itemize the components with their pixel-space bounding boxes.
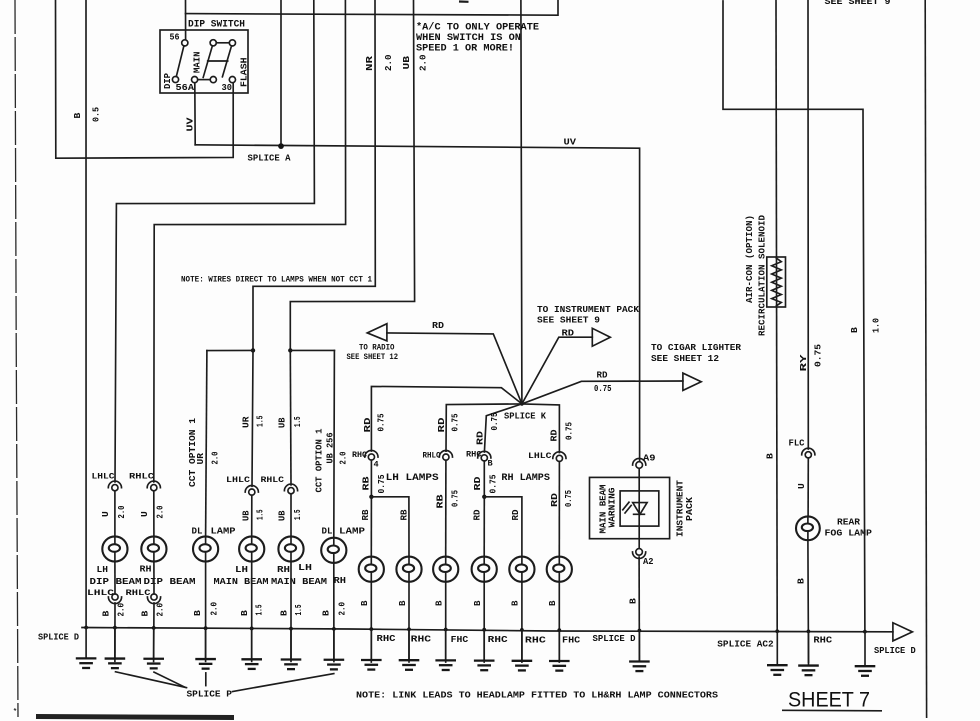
ground instrument pack bbox=[629, 661, 650, 671]
wire feed to dip switch terminal 56 bbox=[185, 0, 187, 40]
wire down to DL lamp 2 bbox=[333, 350, 336, 537]
svg-text:U: U bbox=[796, 483, 807, 489]
svg-text:RD: RD bbox=[472, 476, 483, 490]
svg-text:RHC: RHC bbox=[377, 633, 397, 644]
svg-text:RD: RD bbox=[562, 328, 575, 339]
connector LHLC (LH dip beam) bbox=[108, 481, 121, 491]
instrument pack box bbox=[590, 477, 670, 538]
svg-text:RHC: RHC bbox=[525, 635, 547, 646]
wire RD feed from top to SPLICE K bbox=[521, 0, 522, 404]
svg-text:2.0: 2.0 bbox=[116, 505, 127, 518]
svg-text:SPLICE K: SPLICE K bbox=[504, 411, 546, 422]
svg-text:U: U bbox=[139, 511, 150, 517]
lamp DL LH bbox=[193, 536, 218, 561]
ground RH tail 1 bbox=[474, 661, 495, 671]
node junction RB bbox=[369, 495, 373, 499]
svg-text:LH LAMPS: LH LAMPS bbox=[386, 473, 439, 484]
svg-text:UV: UV bbox=[185, 117, 196, 131]
svg-text:0.75: 0.75 bbox=[488, 474, 499, 493]
svg-text:CCT OPTION 1: CCT OPTION 1 bbox=[314, 428, 325, 493]
svg-text:B: B bbox=[101, 611, 112, 617]
arrow to radio bbox=[367, 324, 387, 341]
wire RD 0.75 to LHLC bbox=[522, 404, 560, 453]
svg-text:RB: RB bbox=[360, 509, 371, 520]
wire B 1.5 to bus and ground bbox=[251, 562, 253, 662]
wire RD to radio bbox=[387, 333, 522, 404]
svg-text:*A/C TO ONLY OPERATE: *A/C TO ONLY OPERATE bbox=[416, 22, 539, 34]
wire RB 0.75 bbox=[445, 460, 447, 556]
wire UV feed from top to splice A bbox=[280, 0, 282, 146]
svg-text:SHEET 7: SHEET 7 bbox=[788, 688, 870, 712]
wire UB 1.5 bbox=[251, 495, 253, 536]
svg-text:RHC: RHC bbox=[466, 451, 482, 460]
svg-text:RH: RH bbox=[140, 564, 152, 575]
svg-text:B: B bbox=[510, 600, 521, 606]
svg-text:2.0: 2.0 bbox=[210, 451, 221, 464]
wire B to bus and ground bbox=[558, 582, 560, 662]
svg-text:RD: RD bbox=[362, 417, 373, 432]
svg-text:SPLICE P: SPLICE P bbox=[187, 689, 233, 700]
svg-text:RD: RD bbox=[549, 429, 560, 441]
recirculation solenoid (air-con option) bbox=[767, 257, 786, 307]
svg-text:B: B bbox=[279, 610, 290, 616]
svg-text:2.0: 2.0 bbox=[418, 54, 429, 71]
svg-text:RHC: RHC bbox=[488, 634, 509, 645]
svg-text:A9: A9 bbox=[643, 453, 656, 464]
svg-text:1.5: 1.5 bbox=[292, 416, 303, 427]
lamp RH main beam bbox=[278, 536, 303, 561]
ground RH tail 2 bbox=[512, 661, 533, 671]
lamp RH tail 2 bbox=[509, 557, 534, 582]
leader splice P to DL RH ground bbox=[233, 674, 334, 692]
svg-text:0.75: 0.75 bbox=[450, 413, 461, 431]
svg-text:1.5: 1.5 bbox=[255, 415, 266, 427]
wire to sheet top (terminal 56 feed rail) bbox=[186, 0, 559, 15]
svg-text:LAMP: LAMP bbox=[339, 526, 365, 537]
wire B to bus and ground bbox=[521, 582, 523, 662]
svg-text:RD: RD bbox=[510, 509, 521, 520]
wire B 2.0 to bus and ground bbox=[114, 603, 116, 661]
wire to recirculation solenoid and SPLICE AC2 bbox=[776, 0, 777, 632]
svg-text:B: B bbox=[628, 598, 639, 604]
svg-text:FHC: FHC bbox=[451, 634, 469, 645]
svg-text:RHLC: RHLC bbox=[261, 475, 285, 485]
ground DL LH bbox=[195, 659, 216, 669]
svg-text:RHLC: RHLC bbox=[129, 472, 154, 482]
connector RHC pin 4 bbox=[365, 450, 378, 460]
wire B to bus and ground bbox=[370, 582, 372, 662]
svg-text:B: B bbox=[547, 600, 558, 606]
ground LH tail 2 bbox=[399, 660, 420, 670]
svg-text:DL: DL bbox=[192, 526, 203, 537]
svg-text:FLASH: FLASH bbox=[239, 57, 250, 87]
connector LHLC bbox=[553, 452, 566, 462]
connector A2 bbox=[633, 549, 646, 559]
wire UV from dip switch 56A contact bbox=[194, 83, 196, 145]
wire B to bus and ground bbox=[445, 582, 447, 662]
svg-text:RD: RD bbox=[597, 370, 608, 381]
svg-text:2.0: 2.0 bbox=[383, 54, 394, 71]
svg-text:B: B bbox=[239, 610, 250, 616]
svg-text:RHC: RHC bbox=[352, 451, 367, 460]
connector FLC bbox=[802, 448, 815, 458]
lamp FH 2 bbox=[547, 557, 572, 582]
lamp LH dip beam bbox=[102, 536, 127, 561]
svg-text:0.75: 0.75 bbox=[594, 383, 612, 394]
svg-text:RB: RB bbox=[435, 494, 446, 508]
connector A9 bbox=[633, 458, 646, 468]
svg-text:U: U bbox=[100, 511, 111, 517]
svg-text:UR: UR bbox=[195, 453, 206, 465]
svg-text:SEE SHEET 9: SEE SHEET 9 bbox=[537, 315, 600, 326]
svg-text:1.5: 1.5 bbox=[292, 509, 303, 520]
svg-text:0.75: 0.75 bbox=[376, 474, 387, 493]
ground SPLICE AC2 bbox=[767, 665, 788, 675]
svg-text:4: 4 bbox=[374, 460, 379, 470]
lamp FH 1 bbox=[433, 557, 458, 582]
svg-text:LHLC: LHLC bbox=[92, 472, 115, 482]
svg-text:B: B bbox=[849, 327, 860, 333]
svg-text:UR: UR bbox=[241, 416, 252, 428]
svg-text:B: B bbox=[397, 600, 408, 606]
connector LHLC (lower) bbox=[108, 594, 121, 604]
connector RHLC (RH main beam) bbox=[284, 484, 297, 494]
wire B feed from top to dip switch terminal 30 bbox=[56, 0, 234, 158]
ground LH dip bbox=[105, 659, 126, 669]
dip switch bbox=[160, 30, 248, 93]
wire B 1.5 to bus and ground bbox=[290, 562, 292, 662]
svg-text:B: B bbox=[434, 600, 445, 606]
svg-text:B: B bbox=[140, 611, 151, 617]
svg-text:SEE SHEET 9: SEE SHEET 9 bbox=[825, 0, 891, 7]
svg-text:0.75: 0.75 bbox=[564, 422, 575, 440]
svg-text:RD: RD bbox=[549, 493, 560, 507]
svg-text:RH: RH bbox=[277, 564, 290, 575]
lamp RH tail 1 bbox=[472, 557, 497, 582]
svg-text:0.5: 0.5 bbox=[91, 107, 102, 122]
svg-text:UB: UB bbox=[241, 510, 252, 521]
wire U bbox=[807, 458, 809, 517]
svg-text:SEE SHEET 12: SEE SHEET 12 bbox=[347, 352, 399, 362]
svg-text:LH: LH bbox=[298, 562, 312, 573]
node SPLICE A bbox=[278, 143, 284, 149]
ground fog lamp bbox=[798, 666, 819, 676]
svg-text:RB: RB bbox=[361, 476, 372, 490]
wire SPLICE D earth bus bbox=[82, 628, 893, 632]
svg-text:TO RADIO: TO RADIO bbox=[359, 343, 395, 353]
wire UB 1.5 bbox=[290, 494, 292, 537]
svg-text:RD: RD bbox=[475, 431, 486, 445]
ground RH main bbox=[281, 660, 302, 670]
svg-text:WARNING: WARNING bbox=[607, 487, 618, 528]
lamp LH main beam bbox=[239, 536, 264, 561]
svg-text:RD: RD bbox=[472, 509, 483, 520]
svg-text:2.0: 2.0 bbox=[337, 602, 348, 616]
svg-text:LHLC: LHLC bbox=[226, 475, 250, 485]
bus junctions bbox=[84, 626, 88, 630]
wire RD to instrument pack bbox=[522, 337, 592, 404]
svg-text:LHLC: LHLC bbox=[528, 452, 552, 461]
svg-text:FOG LAMP: FOG LAMP bbox=[825, 528, 873, 539]
svg-text:MAIN BEAM: MAIN BEAM bbox=[214, 576, 269, 587]
svg-text:0.75: 0.75 bbox=[450, 490, 461, 507]
ground DL RH bbox=[324, 660, 345, 670]
svg-text:RHLC: RHLC bbox=[423, 452, 441, 461]
svg-text:RHLC: RHLC bbox=[126, 588, 151, 598]
svg-text:0.75: 0.75 bbox=[376, 413, 387, 431]
node junction RD bbox=[482, 495, 486, 499]
svg-text:1.5: 1.5 bbox=[293, 604, 304, 615]
wire NR 2.0 to main beam group LH bbox=[253, 0, 375, 350]
svg-text:RHC: RHC bbox=[813, 635, 832, 646]
svg-text:REAR: REAR bbox=[837, 517, 860, 528]
svg-text:SPLICE AC2: SPLICE AC2 bbox=[717, 639, 773, 650]
svg-text:DIP: DIP bbox=[162, 73, 173, 89]
lamp LH tail 1 bbox=[359, 557, 384, 582]
wire B 2.0 to bus and ground bbox=[333, 563, 335, 662]
wire RD branch bbox=[484, 497, 522, 557]
wire RD 0.75 bbox=[483, 461, 485, 497]
svg-text:B: B bbox=[765, 453, 776, 459]
svg-text:LAMP: LAMP bbox=[211, 526, 236, 537]
wire U 2.0 bbox=[153, 491, 155, 537]
svg-text:0.75: 0.75 bbox=[813, 344, 824, 367]
svg-text:UB: UB bbox=[277, 510, 288, 521]
svg-text:SEE SHEET 12: SEE SHEET 12 bbox=[651, 353, 719, 364]
svg-text:56A: 56A bbox=[176, 82, 195, 93]
wire RB bbox=[370, 497, 372, 557]
svg-text:LH: LH bbox=[235, 564, 248, 575]
svg-text:UB: UB bbox=[277, 417, 288, 428]
wire B to bus and ground bbox=[483, 582, 485, 662]
svg-text:LH: LH bbox=[97, 564, 109, 575]
connector RHLC (RH dip beam) bbox=[147, 481, 160, 491]
wire UB 2.0 to main beam group RH bbox=[290, 0, 414, 350]
wire B 1.0 from top right bbox=[723, 1, 865, 632]
svg-text:SPLICE D: SPLICE D bbox=[38, 632, 79, 643]
svg-text:PACK: PACK bbox=[684, 496, 695, 521]
svg-text:0.75: 0.75 bbox=[489, 412, 500, 430]
svg-text:B: B bbox=[72, 113, 83, 119]
svg-text:DIP BEAM: DIP BEAM bbox=[144, 576, 196, 587]
svg-text:NOTE: LINK LEADS TO HEADLAMP F: NOTE: LINK LEADS TO HEADLAMP FITTED TO L… bbox=[356, 690, 719, 701]
wire U 2.0 to RH dip beam (RHLC) bbox=[154, 0, 346, 482]
lamp DL RH bbox=[321, 538, 346, 563]
svg-text:2.0: 2.0 bbox=[155, 505, 166, 518]
wire RD 0.75 to RHC B bbox=[484, 404, 522, 452]
svg-text:NOTE: WIRES DIRECT TO LAMPS WH: NOTE: WIRES DIRECT TO LAMPS WHEN NOT CCT… bbox=[181, 275, 372, 285]
svg-text:30: 30 bbox=[222, 82, 233, 93]
node junction main beam RH bbox=[288, 348, 292, 352]
connector LHLC (LH main beam) bbox=[245, 486, 258, 496]
svg-text:SPEED 1 OR MORE!: SPEED 1 OR MORE! bbox=[416, 44, 514, 55]
ground LH main bbox=[241, 659, 262, 669]
svg-text:AIR-CON (OPTION): AIR-CON (OPTION) bbox=[744, 215, 755, 303]
wire RB 0.75 bbox=[370, 460, 372, 497]
wire B 2.0 to bus and ground bbox=[153, 603, 155, 662]
svg-text:2.0: 2.0 bbox=[116, 603, 127, 617]
wire RB branch bbox=[371, 497, 409, 557]
wire RD bbox=[483, 497, 485, 557]
ground FH 2 bbox=[549, 661, 570, 671]
node SPLICE K bbox=[520, 402, 524, 406]
svg-text:B: B bbox=[192, 610, 203, 616]
wire down to LH main beam LHLC bbox=[252, 350, 253, 486]
wire RD 0.75 to RHLC bbox=[446, 404, 522, 451]
wire bracket to DL lamp LH / LH main beam bbox=[207, 349, 253, 351]
svg-text:RH: RH bbox=[334, 575, 347, 586]
svg-text:0.75: 0.75 bbox=[563, 490, 574, 507]
node junction main beam LH bbox=[251, 348, 255, 352]
svg-text:2.0: 2.0 bbox=[209, 602, 220, 616]
svg-text:UB: UB bbox=[401, 56, 412, 70]
ground RH dip bbox=[143, 659, 164, 669]
svg-text:SPLICE D: SPLICE D bbox=[593, 633, 637, 644]
wire B 2.0 to bus and ground bbox=[205, 562, 207, 662]
svg-text:DIP SWITCH: DIP SWITCH bbox=[188, 20, 245, 31]
svg-text:TO INSTRUMENT PACK: TO INSTRUMENT PACK bbox=[537, 304, 639, 315]
wire bracket to RH main beam / DL lamp bbox=[290, 349, 334, 351]
wire UV rail to instrument pack A9 bbox=[195, 145, 639, 462]
svg-text:1.5: 1.5 bbox=[254, 604, 265, 615]
leader splice P from DL ground bbox=[205, 673, 207, 686]
wire through instrument pack bbox=[638, 468, 640, 548]
lamp rear fog bbox=[796, 516, 820, 540]
wire B 0.5 from top to SPLICE D bus bbox=[85, 0, 87, 628]
wire down to DL lamp bbox=[206, 351, 207, 537]
svg-text:SPLICE A: SPLICE A bbox=[248, 153, 291, 164]
wire RD 0.75 to cigar lighter bbox=[522, 381, 683, 404]
connector RHC pin B bbox=[478, 451, 491, 461]
svg-text:LHLC: LHLC bbox=[87, 588, 114, 598]
svg-text:RHC: RHC bbox=[411, 634, 432, 645]
svg-text:RD: RD bbox=[432, 320, 444, 331]
svg-text:UV: UV bbox=[564, 137, 577, 148]
wire RD 0.75 to RHC 4 bbox=[371, 386, 522, 451]
lamp LH tail 2 bbox=[396, 557, 421, 582]
connector RHLC (lower) bbox=[147, 594, 160, 604]
wire B to bus and ground bbox=[638, 557, 640, 662]
leader splice P from LH dip ground bbox=[116, 672, 187, 688]
wire RY 0.75 from top to FLC bbox=[807, 0, 809, 449]
svg-text:RECIRCULATION SOLENOID: RECIRCULATION SOLENOID bbox=[757, 214, 768, 336]
svg-text:MAIN: MAIN bbox=[192, 51, 203, 73]
svg-text:B: B bbox=[796, 578, 807, 584]
lamp RH dip beam bbox=[141, 536, 166, 561]
ground LH tail 1 bbox=[361, 660, 382, 670]
svg-text:DL: DL bbox=[322, 526, 333, 537]
svg-text:56: 56 bbox=[170, 32, 180, 43]
wire to LHLC lower bbox=[114, 562, 116, 594]
wire RD 0.75 bbox=[558, 462, 560, 557]
wire B to bus and ground bbox=[807, 540, 810, 662]
svg-text:RH LAMPS: RH LAMPS bbox=[501, 473, 550, 484]
arrow to instrument pack bbox=[592, 328, 610, 346]
svg-text:CCT OPTION 1: CCT OPTION 1 bbox=[187, 417, 198, 487]
wire to RHLC lower bbox=[153, 562, 155, 594]
svg-text:1.5: 1.5 bbox=[255, 509, 266, 520]
svg-text:SPLICE D: SPLICE D bbox=[874, 645, 916, 656]
svg-text:A2: A2 bbox=[643, 556, 654, 567]
svg-text:NR: NR bbox=[364, 56, 375, 71]
svg-text:WHEN SWITCH IS ON: WHEN SWITCH IS ON bbox=[416, 33, 521, 44]
ground B 1.0 bbox=[855, 666, 876, 676]
arrow to cigar lighter bbox=[683, 373, 701, 390]
svg-text:2.0: 2.0 bbox=[155, 603, 166, 617]
leader splice P from RH dip ground bbox=[154, 672, 185, 687]
ground FH 1 bbox=[435, 660, 456, 670]
svg-text:1.0: 1.0 bbox=[871, 318, 882, 333]
svg-text:RB: RB bbox=[399, 509, 410, 520]
svg-text:UB 256: UB 256 bbox=[325, 432, 336, 463]
arrow splice D continuation bbox=[893, 623, 913, 641]
svg-text:RD: RD bbox=[436, 417, 447, 432]
svg-text:2.0: 2.0 bbox=[338, 451, 349, 464]
wire U 2.0 bbox=[114, 491, 116, 537]
ground B 0.5 bbox=[76, 658, 97, 668]
wire down to RH main beam RHLC bbox=[289, 350, 292, 485]
svg-text:B: B bbox=[472, 600, 483, 606]
wire U 2.0 to LH dip beam (LHLC) bbox=[115, 0, 314, 482]
svg-text:FHC: FHC bbox=[562, 635, 581, 646]
svg-text:B: B bbox=[488, 459, 493, 469]
svg-text:B: B bbox=[321, 610, 332, 616]
svg-text:B: B bbox=[359, 600, 370, 606]
svg-text:TO CIGAR LIGHTER: TO CIGAR LIGHTER bbox=[651, 342, 741, 353]
svg-text:RY: RY bbox=[798, 354, 809, 371]
connector RHLC bbox=[439, 450, 452, 460]
wire B to bus and ground bbox=[408, 582, 410, 662]
svg-text:FLC: FLC bbox=[789, 438, 805, 449]
svg-text:MAIN BEAM: MAIN BEAM bbox=[271, 576, 327, 587]
main beam warning lamp symbol bbox=[623, 502, 647, 514]
